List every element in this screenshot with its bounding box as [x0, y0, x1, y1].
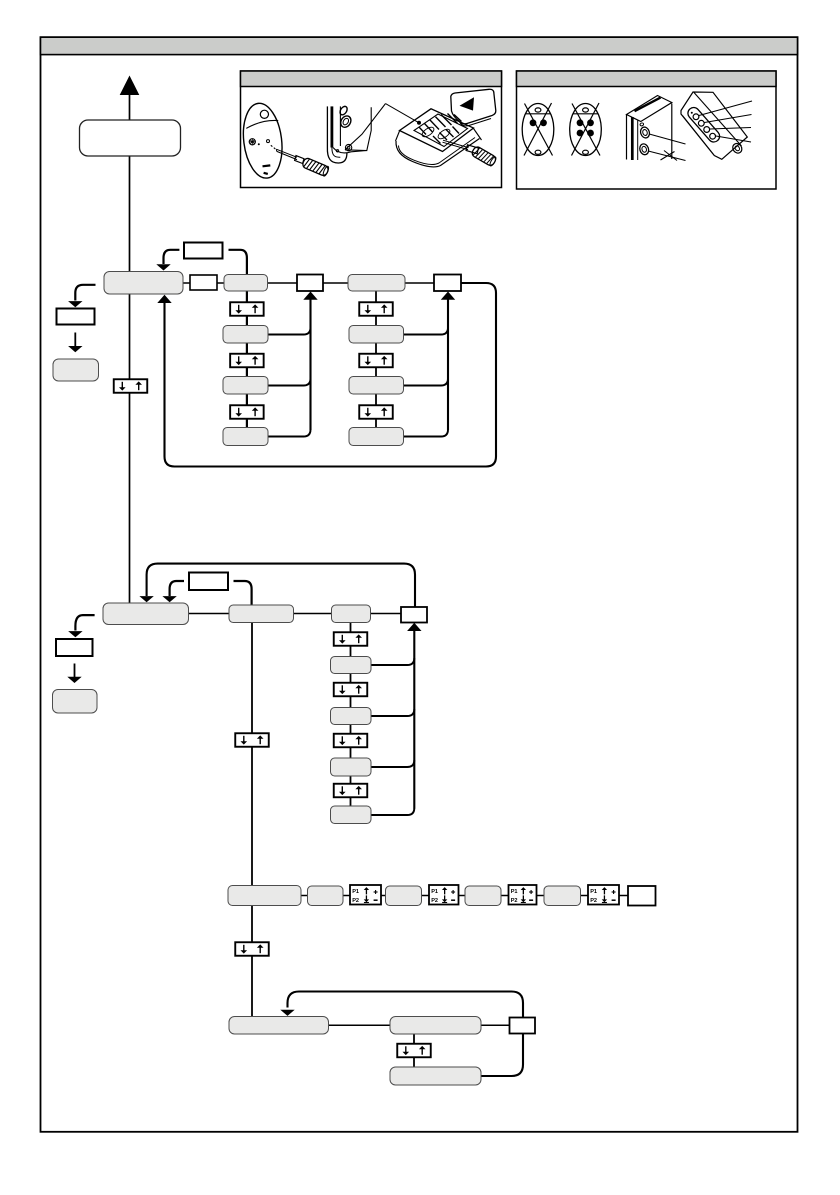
down-up key A2 — [230, 354, 264, 368]
grey box C2 — [331, 708, 372, 725]
wire 2-3 to white s2 — [371, 613, 402, 615]
button 1 — [639, 126, 651, 139]
down-up key box on main spine — [114, 379, 148, 393]
grey box C3 — [331, 758, 372, 776]
module tray rim outer — [396, 139, 480, 167]
wire white 3 to grey 1-4 — [323, 282, 348, 284]
big loop section 2 — [147, 564, 415, 607]
grey box C4 — [331, 806, 372, 824]
wire row 3 — [537, 895, 545, 897]
down-up key A1 — [230, 302, 264, 316]
curve from top white box down column A spine — [229, 250, 247, 437]
main vertical spine line — [129, 94, 131, 604]
connector C1 to return — [371, 658, 414, 665]
connector A3 to return — [268, 430, 311, 437]
panel 2 frame — [517, 71, 777, 189]
wire row 3 — [619, 895, 628, 897]
down-up key C3 — [334, 734, 368, 748]
clip ring small — [339, 105, 349, 116]
cross tick — [661, 152, 675, 161]
grey box 3-3 — [386, 886, 422, 906]
P1 P2 adjust box 2 — [429, 885, 459, 905]
down-up key C4 — [334, 784, 368, 798]
down-up key B2 — [359, 354, 393, 368]
P1 P2 adjust box 1 — [350, 885, 381, 905]
return line column B — [447, 300, 449, 431]
panel 2 header bar — [517, 71, 777, 87]
callout b — [705, 115, 752, 123]
key ring hole — [731, 142, 744, 155]
slide direction triangle — [460, 97, 475, 110]
spine udbox to 4-3 — [413, 1058, 415, 1068]
callout line to module — [386, 104, 420, 123]
top title bar — [41, 37, 798, 54]
white box s4 — [510, 1018, 536, 1034]
column B spine — [375, 291, 377, 437]
grey box 4-3 — [390, 1067, 481, 1085]
transmitter module opened — [386, 104, 482, 167]
down-up key below 4-2 — [397, 1044, 431, 1058]
white box 1-3 — [297, 275, 323, 292]
crossed-out tilted 4-button remote — [681, 92, 752, 159]
connector B2 to return — [404, 379, 449, 386]
grey box A3 — [223, 428, 268, 446]
wire row 3 — [458, 895, 465, 897]
connector C3 to return — [371, 760, 414, 767]
column spine below grey 2-3 — [350, 623, 352, 816]
connector B3 to return — [404, 430, 449, 437]
down-up key C1 — [334, 632, 368, 646]
curve white top s2 right to grey 2-2 — [234, 581, 252, 606]
white end box row 3 — [628, 886, 656, 906]
wire 4-2 to white s4 — [481, 1024, 510, 1026]
opened cover wedge — [345, 104, 386, 150]
P1 P2 adjust box 4 — [588, 885, 619, 905]
down-up key B1 — [359, 302, 393, 316]
down-up key below row 3 — [235, 942, 269, 956]
grey box A1 — [223, 326, 268, 344]
spine below grey 2-2 — [251, 623, 253, 887]
crossed-out 4-button remote — [570, 103, 602, 156]
remote body side view — [327, 104, 385, 163]
svg-text:P1: P1 — [511, 889, 518, 895]
grey box B2 — [349, 377, 404, 395]
P1 P2 adjust box 3 — [509, 885, 537, 905]
wire row 3 — [381, 895, 386, 897]
grey box 1-2 — [224, 275, 268, 292]
callout c — [710, 128, 751, 130]
down-up key B3 — [359, 405, 393, 419]
panel 1 header bar — [241, 71, 502, 87]
svg-text:P2: P2 — [352, 898, 359, 904]
big grey box 4-1 — [229, 1017, 329, 1035]
svg-text:P1: P1 — [352, 889, 359, 895]
grey box 4-2 — [390, 1017, 481, 1035]
spine below row 3 — [251, 906, 253, 1018]
arrow line left white to grey — [74, 333, 76, 347]
module tray rim inner — [399, 138, 476, 165]
wire 2-1 to 2-2 — [189, 613, 229, 615]
small white box s1 row — [190, 275, 217, 290]
big loop section 4 — [288, 992, 524, 1077]
wire row 3 — [343, 895, 350, 897]
connector A2 to return — [268, 379, 311, 386]
battery compartment — [414, 114, 468, 147]
battery cover with triangle — [451, 89, 496, 126]
module lid outline — [400, 109, 474, 152]
wire row 3 — [422, 895, 430, 897]
grey box 1-4 — [348, 275, 405, 292]
arrow line s2 left white to grey — [74, 664, 76, 678]
panel 1 frame — [241, 71, 502, 188]
top arrow to exit — [120, 76, 140, 96]
white box s2 right — [401, 607, 427, 623]
down-up key below 2-2 — [235, 733, 269, 747]
wire small white to grey 1-2 — [217, 282, 224, 284]
grey box B1 — [349, 326, 404, 344]
callout d — [716, 136, 751, 142]
curve from top white box to big box 1-1 — [164, 250, 180, 264]
return line column A — [309, 300, 311, 431]
top rounded terminator box — [80, 120, 181, 156]
wire row 3 — [581, 895, 589, 897]
left grey box s2 — [53, 690, 98, 714]
big return loop section 1 — [165, 283, 497, 467]
grey box 3-2 — [308, 886, 344, 906]
wire row 3 — [301, 895, 308, 897]
screwdriver pointing at cover — [276, 149, 304, 163]
grey box B3 — [349, 428, 404, 446]
wire grey 1-2 to white 3 — [268, 282, 298, 284]
wire 2-2 to 2-3 — [293, 613, 331, 615]
big grey box 3-1 — [228, 886, 301, 906]
connector C2 to return — [371, 709, 414, 716]
svg-text:P2: P2 — [511, 898, 518, 904]
left white box s2 — [56, 639, 93, 656]
left grey box s1 — [53, 359, 99, 381]
connector A1 to return — [268, 328, 311, 335]
button 2 — [638, 143, 650, 156]
grey box 2-2 — [229, 605, 294, 623]
svg-text:P2: P2 — [590, 898, 597, 904]
svg-text:P1: P1 — [590, 889, 597, 895]
svg-text:P1: P1 — [431, 889, 438, 895]
button strip — [686, 105, 722, 144]
grey box 2-3 — [332, 605, 371, 623]
down-up key C2 — [334, 683, 368, 697]
connector C4 to return — [371, 808, 414, 815]
battery 2 — [436, 127, 451, 140]
white option box top s2 — [189, 573, 228, 591]
battery 1 — [420, 125, 435, 138]
return line section 2 column — [413, 631, 415, 809]
callout 2 — [648, 151, 685, 161]
crossed-out wall switch slab — [627, 96, 686, 161]
remote back cover disc — [239, 101, 286, 180]
screwdriver in module — [443, 140, 479, 154]
grey box A2 — [223, 377, 268, 395]
down-up key A3 — [230, 405, 264, 419]
grey box 3-5 — [544, 886, 581, 906]
left white box s1 — [57, 309, 95, 325]
spine 4-2 to udbox — [413, 1034, 415, 1044]
big grey box 1-1 — [104, 272, 183, 295]
grey box 3-4 — [465, 886, 501, 906]
svg-text:P2: P2 — [431, 898, 438, 904]
wire 4-1 to 4-2 — [329, 1024, 391, 1026]
cross line — [694, 93, 742, 147]
curve white top s2 left — [170, 581, 184, 596]
wire grey 1-4 to white 5 — [405, 282, 434, 284]
connector B1 to return — [404, 328, 449, 335]
battery hatching — [419, 114, 462, 144]
crossed-out 2-button remote — [522, 103, 554, 156]
callout a — [699, 101, 752, 116]
wire row 3 — [501, 895, 509, 897]
white box 1-5 — [434, 275, 461, 292]
grey box C1 — [331, 657, 372, 674]
white option box top s1 — [184, 243, 223, 259]
clip ring large — [339, 114, 353, 129]
callout 1 — [649, 134, 685, 144]
curve from box 1-1 to left white box — [75, 285, 95, 301]
wire 1-1 to small white — [183, 282, 190, 284]
big grey box 2-1 — [103, 603, 189, 625]
curve box 2-1 to left white box s2 — [75, 615, 94, 630]
